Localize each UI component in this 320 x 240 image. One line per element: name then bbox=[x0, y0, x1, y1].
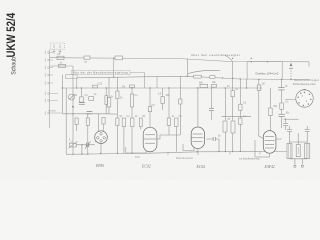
switch contact bbox=[45, 73, 53, 77]
resistor R13 bbox=[148, 107, 151, 112]
switch contacts column bbox=[45, 51, 62, 116]
wire top B+ rail bbox=[50, 58, 309, 62]
terminal T1 bbox=[294, 159, 296, 168]
resistor R7 bbox=[107, 98, 111, 108]
svg-text:0,25: 0,25 bbox=[98, 83, 103, 85]
tube V4 EABC80 bbox=[263, 131, 276, 154]
resistor R8 bbox=[116, 91, 119, 99]
wire x176.3 bbox=[175, 127, 177, 152]
tube socket view U5 bbox=[296, 89, 313, 107]
svg-text:Bandbreitenregler: Bandbreitenregler bbox=[294, 78, 319, 82]
terminal T2 bbox=[301, 159, 303, 168]
indicator arrow (dashed) bbox=[289, 63, 293, 80]
wire drop x157 bbox=[156, 77, 158, 89]
wire x140.8 bbox=[140, 127, 142, 130]
wire x87.8 low bbox=[87, 126, 89, 155]
wire drop x113.7 bbox=[113, 58, 115, 77]
wire x117.4 bbox=[116, 78, 118, 119]
tube V3 EC92 bbox=[191, 127, 204, 149]
resistor R28 on mid rail bbox=[194, 75, 202, 78]
wire x123.9 bbox=[123, 127, 125, 154]
resistor R25 bbox=[269, 108, 273, 116]
wire x117.4 low bbox=[116, 126, 118, 154]
wire right corner drop bbox=[308, 62, 310, 67]
wire x219 bbox=[218, 139, 220, 151]
wire x73 bbox=[72, 66, 74, 154]
wire x62.3 bbox=[61, 75, 63, 114]
svg-text:EF80: EF80 bbox=[95, 164, 104, 168]
wire x232.7 low bbox=[232, 133, 234, 152]
coil L4 bbox=[305, 144, 310, 159]
capacitor C9 bbox=[279, 114, 285, 116]
tube V1 EF80 (socket style) bbox=[95, 131, 108, 144]
wire x81.4 bbox=[80, 88, 82, 97]
coil L3 bbox=[287, 144, 292, 159]
resistor R2 bbox=[80, 97, 84, 102]
capacitor C8 bbox=[278, 88, 284, 90]
wire linkage curve a bbox=[188, 70, 220, 73]
wire tube V3 leads bbox=[183, 144, 198, 152]
resistor R21 bbox=[231, 121, 235, 133]
switch contact bbox=[45, 92, 58, 96]
switch contact bbox=[45, 111, 62, 115]
switch contact bbox=[45, 81, 53, 85]
wire bar tail bbox=[130, 71, 145, 73]
wire tube V4 leads bbox=[255, 139, 282, 157]
svg-text:EC92: EC92 bbox=[141, 165, 151, 169]
resistor R6 bbox=[86, 118, 89, 126]
wire x180.3 bbox=[179, 76, 181, 135]
wire tube V1 leads bbox=[95, 114, 104, 154]
wire mid rail y78 bbox=[77, 76, 310, 79]
resistor R3 bbox=[89, 97, 94, 101]
wire ground rail bbox=[66, 151, 287, 154]
svg-text:über den Lautstärkeregler: über den Lautstärkeregler bbox=[191, 53, 240, 57]
resistor R23 bbox=[239, 118, 242, 124]
resistor R18 on rail88 bbox=[212, 84, 217, 87]
svg-text:Umsch.: Umsch. bbox=[48, 110, 56, 113]
wire x187.5 bbox=[187, 59, 189, 76]
switch contact bbox=[45, 58, 53, 62]
resistor R11 bbox=[131, 118, 134, 127]
capacitor C15 bbox=[179, 99, 182, 104]
capacitor C5 variable bbox=[76, 141, 95, 154]
trimmer CT1 bbox=[69, 94, 75, 100]
svg-text:Ratiodetektor: Ratiodetektor bbox=[176, 157, 193, 160]
resistor R12 bbox=[139, 118, 142, 127]
svg-text:EAF42: EAF42 bbox=[264, 165, 275, 169]
resistor R16 bbox=[175, 118, 178, 127]
antenna terminal box (dashed) bbox=[51, 43, 65, 54]
capacitor C4 bbox=[79, 103, 85, 105]
third stage bbox=[188, 55, 252, 151]
wire tube V2 leads bbox=[126, 125, 150, 153]
svg-text:Schaub: Schaub bbox=[11, 57, 17, 75]
resistor R26 bbox=[280, 103, 284, 109]
capacitor C13 bbox=[283, 118, 288, 130]
fourth stage bbox=[257, 80, 298, 139]
Drehko box bbox=[247, 62, 282, 80]
resistor R5 bbox=[75, 118, 78, 125]
wire bracket ticks bbox=[168, 152, 260, 156]
capacitor C1 on top rail bbox=[57, 56, 64, 59]
wire y119 link bbox=[284, 118, 299, 120]
wire x240.3 bbox=[239, 79, 241, 118]
27k label bbox=[130, 85, 135, 88]
switch contact bbox=[45, 66, 53, 70]
wire x87.8 bbox=[87, 114, 89, 118]
resistor R9 bbox=[116, 118, 119, 126]
capacitor C14 on top rail bbox=[84, 56, 90, 59]
resistor R22 bbox=[239, 104, 242, 110]
wire transformer feeds bbox=[290, 132, 308, 145]
resistor R14 bbox=[161, 97, 164, 104]
capacitor C11 bbox=[287, 126, 292, 131]
junction dot bbox=[72, 106, 73, 107]
wire x132 low bbox=[131, 127, 133, 154]
left tuning section bbox=[62, 66, 117, 154]
coil L1 bbox=[105, 96, 108, 105]
capacitor C3 bbox=[87, 112, 93, 114]
wire x76.6 bbox=[76, 125, 78, 132]
wire x270.3 bbox=[269, 88, 271, 131]
switch contact bbox=[45, 51, 53, 55]
wire left column vertical bbox=[49, 50, 51, 129]
coil L2 bbox=[130, 94, 133, 107]
svg-text:UKW 52/4: UKW 52/4 bbox=[5, 13, 18, 58]
wire x258.8 bbox=[259, 80, 263, 139]
svg-text:47 k: 47 k bbox=[135, 155, 141, 159]
svg-text:EC92: EC92 bbox=[196, 165, 206, 169]
capacitor C12 bbox=[305, 126, 310, 131]
resistor R4 on rail88 bbox=[93, 85, 98, 88]
resistor R17 on rail88 bbox=[200, 84, 208, 87]
wire x106 bbox=[105, 88, 107, 114]
wire drop x77 bbox=[76, 78, 78, 88]
wire x232.7 bbox=[232, 62, 234, 121]
wire box feeds bbox=[251, 61, 269, 62]
resistor R24 bbox=[257, 85, 261, 91]
wire drop x144.5 bbox=[144, 73, 146, 89]
resistor R15 bbox=[167, 118, 170, 126]
wire x281.6 bbox=[281, 80, 283, 129]
capacitor C2 on rail2 bbox=[59, 64, 66, 67]
wire x149 bbox=[149, 88, 151, 125]
wire x66.2 bbox=[65, 88, 67, 154]
wire x225 low bbox=[224, 132, 226, 152]
wire transformer bottom bbox=[290, 158, 308, 160]
wire y135 link bbox=[157, 135, 180, 139]
resistor R29 on mid rail bbox=[210, 76, 215, 79]
wire second rail left bbox=[50, 65, 73, 67]
value labels bbox=[57, 54, 290, 142]
wire x211.5 bbox=[211, 87, 213, 120]
svg-text:Drehko 2/4=1×2: Drehko 2/4=1×2 bbox=[256, 72, 279, 76]
wire linkage curve b bbox=[225, 55, 233, 61]
resistor R1 on top rail mid bbox=[115, 56, 123, 60]
label box Bandbreitenregelung bbox=[72, 70, 131, 74]
wire x240.3 low bbox=[239, 124, 241, 151]
wire x109 bbox=[108, 77, 110, 113]
component box K1 bbox=[66, 75, 78, 78]
capacitor C10 stack bbox=[296, 145, 300, 157]
svg-text:Nur bei der Bandbreitenregelun: Nur bei der Bandbreitenregelung bbox=[74, 71, 128, 75]
wire x225 bbox=[224, 88, 226, 121]
wire x197.7 bbox=[197, 88, 199, 128]
output transformer bbox=[283, 118, 310, 167]
mid IF section bbox=[107, 76, 182, 153]
svg-text:1M: 1M bbox=[262, 83, 265, 85]
svg-text:zur Bandbreitenreg.: zur Bandbreitenreg. bbox=[239, 158, 260, 161]
resistor R20 bbox=[231, 91, 234, 97]
wire transformer top bbox=[290, 141, 308, 143]
wire y116.7 link bbox=[222, 116, 252, 118]
wire x162.6 bbox=[162, 88, 164, 110]
wire row y113 bbox=[62, 113, 106, 115]
wire socket lead bbox=[285, 98, 296, 100]
wire screen rail y88 bbox=[62, 87, 262, 89]
switch contact bbox=[45, 99, 58, 103]
tube V2 EC92 bbox=[143, 127, 157, 151]
resistor R19 bbox=[223, 121, 227, 132]
resistor R27 bbox=[102, 118, 105, 125]
capacitor C7 series bbox=[207, 137, 220, 141]
trimmer CT2 bbox=[69, 141, 78, 148]
wire x132 bbox=[131, 88, 133, 118]
wire x246.5 bbox=[246, 79, 248, 88]
wire x169 bbox=[168, 88, 170, 135]
resistor R10 bbox=[122, 118, 125, 127]
svg-text:Röhrenfassung unten: Röhrenfassung unten bbox=[293, 82, 317, 86]
capacitor C6 bbox=[209, 108, 214, 110]
